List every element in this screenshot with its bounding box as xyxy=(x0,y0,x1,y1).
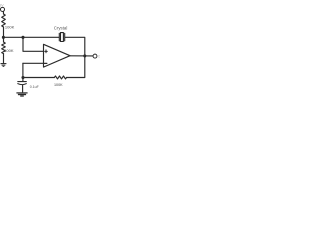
wire xyxy=(3,54,5,64)
resistor R2 xyxy=(2,42,6,54)
output terminal xyxy=(93,54,97,58)
svg-text:100K: 100K xyxy=(54,83,63,87)
wire main node line xyxy=(4,36,59,38)
svg-text:100K: 100K xyxy=(4,48,14,53)
feedback wire xyxy=(67,56,85,78)
op-amp minus pin xyxy=(44,62,47,64)
svg-text:9V: 9V xyxy=(0,3,4,7)
svg-text:O: O xyxy=(98,54,100,58)
output wire xyxy=(70,55,93,57)
crystal Y1 xyxy=(59,33,64,42)
supply terminal xyxy=(0,7,4,11)
wire xyxy=(65,37,85,56)
resistor R1 xyxy=(2,14,6,27)
ground xyxy=(1,64,7,67)
svg-text:0.1uF: 0.1uF xyxy=(30,85,39,89)
wire xyxy=(2,11,4,14)
wire xyxy=(22,63,24,81)
svg-text:100K: 100K xyxy=(5,25,15,30)
op-amp U1 xyxy=(44,44,71,67)
ground xyxy=(16,93,27,96)
node A xyxy=(2,36,5,39)
node C xyxy=(21,76,24,79)
capacitor C1 xyxy=(18,82,27,92)
node B xyxy=(21,36,24,39)
svg-text:Crystal: Crystal xyxy=(54,25,68,30)
node D xyxy=(83,54,86,57)
resistor R3 xyxy=(54,76,66,79)
wire xyxy=(3,27,5,42)
wire xyxy=(23,77,54,79)
wire minus input xyxy=(23,62,44,64)
wire plus input xyxy=(23,37,44,51)
op-amp plus pin xyxy=(45,50,48,53)
